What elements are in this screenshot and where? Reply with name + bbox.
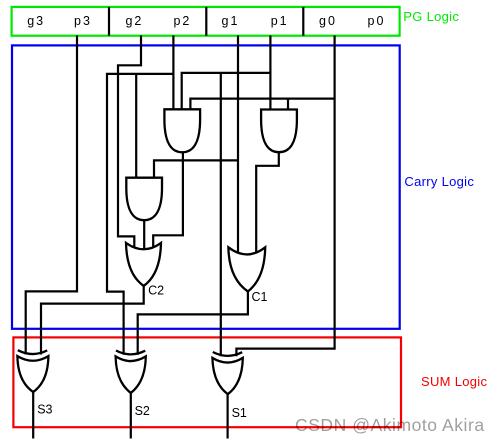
XOR gate S2 body — [116, 356, 146, 393]
PG cell divider 1 — [108, 7, 110, 36]
wire p1 stub down to XOR S1 left input — [220, 73, 222, 356]
AND gate C (p2·g1) — [126, 178, 162, 221]
wire g0 branch: left along y=98.6 into AND A right input — [190, 99, 334, 112]
wire C1 output: down, left along y=314.4, down into XOR S2 right input — [138, 290, 248, 355]
wire AND A output: down, jog left into OR C2 right input — [153, 151, 183, 250]
wire AND B output: down, jog left into OR C1 right input — [256, 151, 279, 254]
wire p1 branch: left along y=73 into AND A middle input — [182, 73, 271, 112]
wire S1 output — [227, 392, 229, 439]
wire p1 main: from PG box down into AND B left input — [269, 36, 271, 113]
svg-text:CSDN @Akimoto Akira: CSDN @Akimoto Akira — [295, 415, 485, 435]
svg-text:p3: p3 — [74, 14, 92, 28]
Carry Logic box — [12, 45, 400, 328]
svg-text:p1: p1 — [271, 14, 289, 28]
XOR gate S2 input arc — [116, 351, 145, 355]
PG cell divider 3 — [302, 7, 304, 36]
wire AND C output: down into OR C2 middle input — [143, 219, 145, 254]
wire g0 stub to AND B right input — [287, 99, 289, 112]
wire p3: from PG box down, jog left into XOR S3 left input — [26, 36, 77, 355]
wire g1 main: from PG box down into OR C1 left input — [237, 36, 239, 255]
XOR gate S1 input arc — [213, 352, 242, 356]
XOR gate S3 body — [17, 356, 48, 392]
svg-text:g0: g0 — [319, 14, 337, 28]
PG Logic box — [12, 7, 400, 36]
svg-text:C2: C2 — [148, 284, 164, 298]
svg-text:g2: g2 — [125, 14, 143, 28]
svg-text:S3: S3 — [37, 403, 52, 417]
wire C2 output: down, left along y=303.6, down into XOR S3 right input — [41, 284, 144, 355]
AND gate A (p2·p1·g0) — [164, 109, 200, 152]
wire S3 output — [32, 390, 34, 439]
svg-text:p2: p2 — [173, 14, 191, 28]
svg-text:C1: C1 — [252, 290, 268, 304]
OR gate C1 — [228, 247, 265, 291]
svg-text:SUM Logic: SUM Logic — [421, 374, 487, 389]
OR gate C2 — [126, 243, 161, 286]
XOR gate S1 body — [212, 358, 242, 394]
PG cell divider 2 — [205, 7, 207, 36]
svg-text:S2: S2 — [135, 404, 150, 418]
svg-text:g1: g1 — [222, 14, 240, 28]
wire p2 stub to AND C left input — [135, 74, 137, 180]
svg-text:S1: S1 — [232, 406, 247, 420]
SUM Logic box — [13, 337, 401, 427]
AND gate B (p1·g0) — [261, 110, 297, 153]
wire p2 branch: left along y=74, down, jog right into XOR S2 left input — [107, 74, 173, 355]
svg-text:PG Logic: PG Logic — [403, 9, 459, 24]
wire g1 branch: left along y=160 into AND C right input — [154, 160, 238, 180]
svg-text:g3: g3 — [27, 14, 45, 28]
wire p2 main: from PG box down into AND A left input — [172, 36, 174, 113]
wire S2 output — [130, 391, 132, 439]
wire g0 main: from PG box long drop, jog left into XOR S1 right input — [236, 36, 334, 357]
XOR gate S3 input arc — [18, 350, 47, 354]
svg-text:Carry Logic: Carry Logic — [404, 174, 474, 189]
wire g2: from PG box, jog left, down, jog right into OR C2 left input — [118, 36, 141, 251]
svg-text:p0: p0 — [368, 14, 386, 28]
